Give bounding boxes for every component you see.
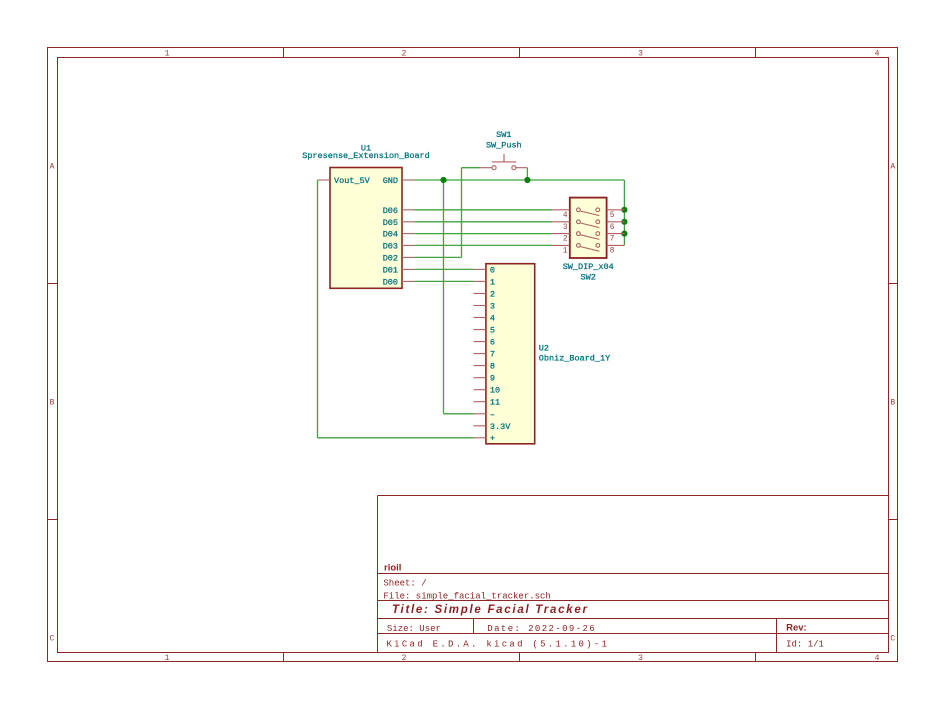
svg-text:3: 3 [638,50,643,59]
svg-text:B: B [50,399,55,408]
svg-text:D01: D01 [383,265,398,275]
SW2 pin 7 [607,234,625,244]
svg-text:SW2: SW2 [581,273,596,283]
svg-text:3.3V: 3.3V [490,422,511,432]
svg-text:KiCad E.D.A. kicad (5.1.10)-1: KiCad E.D.A. kicad (5.1.10)-1 [387,640,610,650]
svg-text:8: 8 [490,362,495,372]
svg-text:1: 1 [563,247,568,255]
svg-text:Spresense_Extension_Board: Spresense_Extension_Board [302,151,430,161]
component SW2 SW_DIP_x04 body [570,198,607,258]
svg-text:D05: D05 [383,218,398,228]
wire D00 to U2 pin 1 [414,280,473,282]
svg-text:SW_Push: SW_Push [486,140,522,150]
svg-text:2: 2 [490,290,495,300]
SW2 switch element 4 (pins 1/8) [577,244,600,252]
component U2 Obniz_Board_1Y body [486,264,535,444]
svg-text:6: 6 [490,338,495,348]
junction at GND branch [440,177,446,183]
svg-text:File: simple_facial_tracker.sc: File: simple_facial_tracker.sch [383,591,550,601]
SW2 pin 8 [607,245,625,255]
svg-text:D02: D02 [383,253,398,263]
svg-text:C: C [50,635,55,644]
svg-text:Sheet: /: Sheet: / [383,579,426,589]
U1 pin D01 [383,265,415,275]
title block lines [378,496,889,653]
svg-text:4: 4 [563,212,568,220]
svg-text:2: 2 [402,50,407,59]
svg-text:SW1: SW1 [496,130,511,140]
U2 pin minus [474,410,496,420]
svg-text:4: 4 [875,50,880,59]
svg-text:Obniz_Board_1Y: Obniz_Board_1Y [539,354,610,364]
svg-text:Date: 2022-09-26: Date: 2022-09-26 [487,624,596,634]
U2 pin 11 [474,398,501,408]
svg-text:3: 3 [638,654,643,663]
svg-text:9: 9 [490,374,495,384]
svg-text:A: A [890,163,895,172]
U2 pin 6 [474,338,496,348]
U1 pin Vout_5V [318,176,371,186]
svg-text:SW_DIP_x04: SW_DIP_x04 [563,262,614,272]
svg-text:A: A [50,163,55,172]
svg-text:10: 10 [490,386,500,396]
svg-text:Size: User: Size: User [387,624,441,634]
junction at SW2 pin 7 [621,231,627,237]
junction at SW2 pin 6 [621,219,627,225]
SW2 switch element 2 (pins 3/6) [577,220,600,228]
SW2 switch element 3 (pins 2/7) [577,232,600,240]
SW2 pin 1 [552,245,570,255]
U1 pin D02 [383,253,415,263]
svg-text:Rev:: Rev: [786,623,807,634]
SW2 pin 2 [552,234,570,244]
svg-text:Title: Simple Facial Tracker: Title: Simple Facial Tracker [392,604,589,616]
SW2 pin 5 [607,210,625,220]
svg-text:5: 5 [610,212,615,220]
svg-text:1: 1 [165,50,170,59]
wire D04 to SW2 pin 2 [414,233,552,235]
svg-text:11: 11 [490,398,500,408]
wire D05 to SW2 pin 3 [414,221,552,223]
wire GND horizontal from U1 GND pin to right corner [414,179,624,181]
wire SW1 right pin down to GND net [526,168,528,180]
U2 pin 10 [474,386,501,396]
svg-text:4: 4 [875,654,880,663]
SW2 pin 4 [552,210,570,220]
wire SW1 left pin to D02 [414,168,480,258]
svg-text:B: B [890,399,895,408]
wire D06 to SW2 pin 4 [414,209,552,211]
U1 pin D03 [383,241,415,251]
svg-text:Id: 1/1: Id: 1/1 [786,640,824,650]
wire D03 to SW2 pin 1 [414,244,552,246]
junction at SW1 right pin [524,177,530,183]
U1 pin D06 [383,206,415,216]
SW2 pin 3 [552,222,570,232]
svg-text:Vout_5V: Vout_5V [334,176,371,186]
U2 pin 2 [474,290,496,300]
U2 pin plus [474,433,496,443]
svg-text:U2: U2 [539,344,549,354]
U2 pin 9 [474,374,496,384]
svg-text:GND: GND [383,176,398,186]
U2 pin 5 [474,326,496,336]
U2 pin 1 [474,277,496,287]
svg-text:D06: D06 [383,206,398,216]
svg-text:8: 8 [610,247,615,255]
svg-text:D03: D03 [383,241,398,251]
svg-text:4: 4 [490,314,495,324]
U2 pin 7 [474,350,496,360]
svg-text:2: 2 [402,654,407,663]
U1 pin D00 [383,277,415,287]
SW2 switch element 1 (pins 4/5) [577,208,600,216]
svg-text:0: 0 [490,265,495,275]
U1 pin GND [383,176,415,186]
svg-text:6: 6 [610,224,615,232]
U2 pin 3.3V [474,422,512,432]
SW2 pin 6 [607,222,625,232]
svg-text:5: 5 [490,326,495,336]
U1 pin D04 [383,230,415,240]
svg-text:–: – [490,410,495,420]
U1 pin D05 [383,218,415,228]
component U1 Spresense_Extension_Board body [330,168,402,289]
wire GND vertical right column to SW2 pin 8 [623,180,625,245]
svg-text:2: 2 [563,236,568,244]
svg-text:3: 3 [490,302,495,312]
svg-text:7: 7 [490,350,495,360]
wire branch to U2 minus pin (vertical) [444,180,474,414]
U2 pin 4 [474,314,496,324]
U2 pin 3 [474,302,496,312]
svg-text:1: 1 [490,277,495,287]
junction at SW2 pin 5 [621,207,627,213]
svg-text:7: 7 [610,236,615,244]
wire Vout_5V to U2 plus pin [318,180,474,438]
svg-text:+: + [490,433,495,443]
switch SW1 SW_Push symbol [480,154,527,170]
svg-text:3: 3 [563,224,568,232]
svg-text:D04: D04 [383,230,398,240]
U2 pin 8 [474,362,496,372]
U2 pin 0 [474,265,496,275]
svg-text:C: C [890,635,895,644]
svg-text:D00: D00 [383,277,398,287]
wire D01 to U2 pin 0 [414,268,473,270]
svg-text:1: 1 [165,654,170,663]
svg-text:rioil: rioil [384,563,401,574]
sheet border frame (decorative) [48,48,898,662]
